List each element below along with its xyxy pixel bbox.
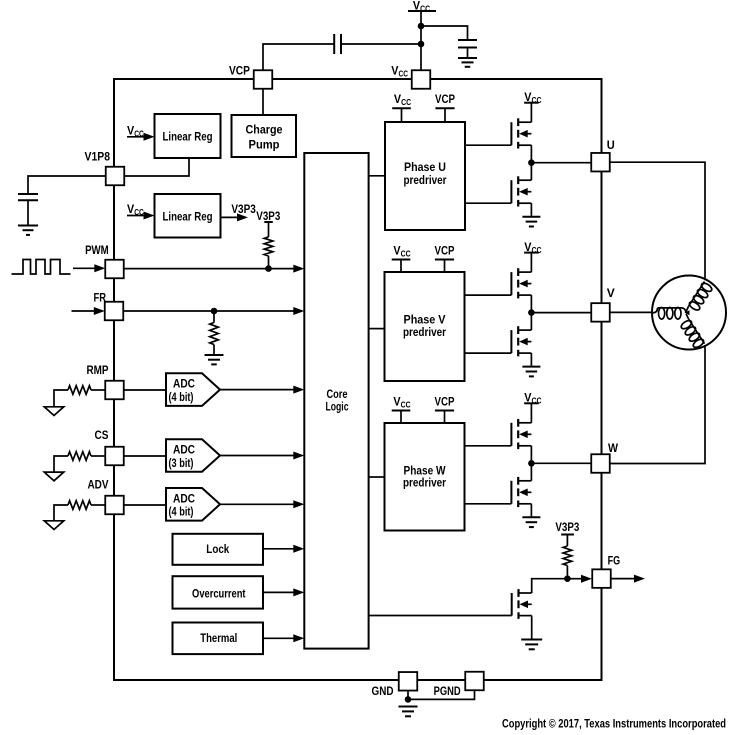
svg-text:Thermal: Thermal [200,631,237,645]
arrowhead ADC2 into core [293,452,304,460]
pin V1P8 [106,167,125,186]
wire ADC3 to core [220,503,295,505]
svg-text:CS: CS [95,428,109,442]
wire FG output arrow [611,578,634,580]
label FG [608,553,621,567]
svg-text:RMP: RMP [87,363,109,377]
wire V3P3 to resistor R3 [566,535,568,547]
label VCP pre U [435,92,455,106]
label VCC bridge V [524,240,541,255]
arrowhead into FG pin [581,575,592,583]
VCP tap Phase V predriver [435,260,454,273]
pin PGND [465,672,484,691]
VCC tap Phase W predriver [392,411,411,424]
wire R1 to PWM line [268,256,270,269]
arrowhead ADC3 into core [293,500,304,508]
junction dot top 2 [418,41,425,48]
wire ADV resistor lead [91,504,105,506]
svg-text:V3P3: V3P3 [256,209,280,223]
label VCP pre W [435,394,455,408]
svg-text:predriver: predriver [403,325,446,339]
motor coil W [680,314,705,349]
wire U pin to motor [610,162,705,280]
wire Overcurrent to core [263,591,295,593]
ground symbol bridge V [522,367,540,377]
svg-text:Logic: Logic [326,400,349,414]
pin RMP [105,381,124,400]
wire RMP resistor to ground arrow [54,390,68,407]
VCP tap Phase W predriver [435,411,454,424]
VCC tap Phase V predriver [392,260,411,273]
label Linear Reg 1 [163,129,213,143]
wire low-side source to ground V [530,353,532,367]
svg-text:Lock: Lock [206,542,229,556]
resistor R1 PWM pull-up [264,237,273,256]
pin U [591,153,610,172]
svg-text:Pump: Pump [249,138,280,152]
svg-text:(4 bit): (4 bit) [169,505,194,519]
label RMP [87,363,109,377]
label V3P3 FG [555,520,579,534]
label GND [372,684,394,698]
wire W pin to motor [610,345,705,464]
arrowhead into FR pin [94,307,105,315]
label PGND [434,684,461,698]
node V junction dot [528,309,535,316]
svg-text:(4 bit): (4 bit) [169,390,194,404]
wire CS resistor to ground arrow [54,456,68,472]
wire phase node to pin V [531,312,591,314]
block Core Logic [304,153,368,649]
wire V3P3 to resistor R1 [268,222,270,237]
transistor QWH high-side W [465,419,532,449]
ground symbol bridge W [522,517,540,527]
resistor R3 FG pull-up [563,546,572,566]
wire GND pin to ground [407,691,409,700]
ground symbol FG MOSFET [521,640,542,650]
wire low-side drain V [530,313,532,331]
svg-text:W: W [608,441,619,455]
arrowhead into Linear Reg 2 [144,212,155,220]
VCC supply rail top [408,10,436,12]
motor coil V [652,308,686,320]
wire C2 to VCP pin [263,44,334,70]
block Phase W predriver [385,423,465,531]
pin VCP [254,70,273,89]
motor winding center junction [685,310,690,315]
wire VCC to high-side drain V [530,253,532,273]
pin VCC [412,70,431,89]
resistor CS input [68,452,91,461]
transistor QVL low-side V [465,326,532,356]
wire FR input arrow [72,310,96,312]
pin FR [105,302,124,321]
wire PGND to GND junction [408,690,475,699]
block Linear Reg 2 [155,194,221,238]
ground symbol R2 [205,355,224,364]
label Thermal [200,631,237,645]
block Phase U predriver [385,122,465,230]
arrowhead Overcurrent into core [293,588,304,596]
block Lock [173,534,264,565]
label CS [95,428,109,442]
svg-text:(3 bit): (3 bit) [169,456,194,470]
wire ADC1 to core [220,389,295,391]
VCC tap Phase U predriver [392,108,411,122]
svg-text:V3P3: V3P3 [555,520,579,534]
V3P3 supply bar PWM pull-up [264,221,273,223]
label Overcurrent [192,586,246,600]
wire junction to charge pump capacitor [341,43,421,45]
label Lock [206,542,229,556]
wire Thermal to core [263,637,295,639]
wire phase node to pin W [531,462,591,464]
pin V [591,303,610,322]
wire core to FG MOSFET gate [369,615,512,617]
label VCC bridge W [524,391,541,406]
capacitor C1 VCC bypass [458,40,477,48]
label ADV [88,478,109,492]
junction dot top 1 [418,23,425,30]
arrowhead into Linear Reg 1 [144,133,155,141]
transistor QWL low-side W [465,477,532,507]
wire low-side source to ground U [530,203,532,217]
wire RMP resistor lead [91,389,105,391]
wire core to Phase W predriver [369,476,385,478]
wire low-side drain W [530,463,532,481]
block Charge Pump [232,115,297,157]
svg-text:V1P8: V1P8 [85,150,111,164]
ground arrow CS [44,472,64,481]
ADC1 4 bit [166,373,220,406]
svg-text:Copyright © 2017, Texas Instru: Copyright © 2017, Texas Instruments Inco… [502,717,726,731]
transistor QUL low-side U [465,176,531,206]
resistor RMP input [68,386,91,395]
junction dot GND [405,696,412,703]
copyright notice [502,717,726,731]
arrowhead Lock into core [293,545,304,553]
ground arrow RMP [44,407,64,416]
svg-text:VCP: VCP [435,92,455,106]
wire VCP pin to Charge Pump [262,89,264,115]
wire FR to core [123,310,295,312]
svg-text:U: U [607,138,615,152]
svg-text:FG: FG [608,553,621,567]
wire R2 to ground [213,345,215,356]
ground symbol bridge U [522,217,540,227]
label Phase V predriver [403,313,446,340]
ground symbol C1 [458,58,477,67]
ADC2 3 bit [166,439,220,472]
chip boundary box [114,79,602,680]
PWM square wave symbol [12,260,71,275]
svg-text:ADC: ADC [173,491,195,505]
arrowhead ADC1 into core [293,386,304,394]
wire V1P8 to external capacitor [28,176,106,194]
label V3P3 regulator output [231,202,256,216]
wire VCC into Linear Reg 1 [127,136,145,138]
block Linear Reg 1 [155,114,221,158]
wire R3 to FG node [566,566,568,579]
wire high-side source to phase node V [530,295,532,313]
pin GND [399,672,418,691]
transistor QVH high-side V [465,268,532,298]
arrowhead PWM into core [293,265,304,273]
svg-text:predriver: predriver [404,173,447,187]
wire CS to ADC2 [124,455,166,457]
wire Lock to core [263,548,295,550]
label Linear Reg 2 [163,209,213,223]
label V1P8 [85,150,111,164]
label VCC Linear Reg 2 [127,202,144,217]
svg-text:Overcurrent: Overcurrent [192,586,246,600]
svg-text:Linear Reg: Linear Reg [163,209,213,223]
label VCC pre U [394,92,411,107]
svg-text:Linear Reg: Linear Reg [163,129,213,143]
label FR [94,291,107,305]
wire ADV to ADC3 [124,504,166,506]
svg-text:PGND: PGND [434,684,461,698]
label Core Logic [326,387,349,414]
label VCC top [413,0,430,13]
junction dot PWM V3P3 [265,265,272,272]
wire C1 to ground [467,48,469,59]
arrowhead into PWM pin [94,264,105,272]
resistor ADV input [68,501,91,510]
wire ADV resistor to ground arrow [54,505,68,521]
transistor QUH high-side U [465,118,531,148]
wire ADC2 to core [220,455,295,457]
label VCC Linear Reg 1 [127,123,144,138]
capacitor C3 V1P8 bypass [18,194,38,200]
label VCC pin [391,64,408,79]
svg-text:GND: GND [372,684,394,698]
VCP tap Phase U predriver [435,108,454,122]
label VCP [229,64,250,78]
ground symbol C3 [18,226,38,235]
wire FG drain up [532,579,568,593]
label VCC pre V [393,243,410,258]
label Phase U predriver [404,160,447,187]
label Phase W predriver [403,464,446,490]
arrowhead Thermal into core [293,634,304,642]
label VCP pre V [435,243,455,257]
wire RMP to ADC1 [124,389,166,391]
wire VCC to high-side drain W [530,403,532,423]
capacitor C2 charge pump [334,34,341,54]
wire FR junction to resistor R2 [213,311,215,323]
resistor R2 FR pulldown [210,323,219,345]
label V [607,286,615,300]
wire low-side drain U [530,163,532,181]
wire FG source to ground [531,616,533,640]
V3P3 supply bar FG pull-up [561,534,574,536]
wire PWM to core [124,268,295,270]
block Phase V predriver [385,272,465,381]
block Overcurrent [173,576,264,608]
label V3P3 supply [256,209,280,223]
wire CS resistor lead [91,455,105,457]
pin PWM [105,260,124,279]
svg-text:VCP: VCP [435,243,455,257]
wire high-side source to phase node U [530,145,532,163]
wire VCC rail down to VCC pin [420,11,422,70]
svg-text:V3P3: V3P3 [231,202,256,216]
VCC rail half-bridge V [524,252,539,254]
svg-text:predriver: predriver [403,476,446,490]
svg-text:ADC: ADC [173,443,195,457]
block Thermal [173,623,264,655]
label PWM [85,243,109,257]
wire C3 to ground [27,200,29,225]
motor coil U [686,282,713,312]
label Charge Pump [246,123,283,152]
wire phase node to pin U [531,162,591,164]
label U [607,138,615,152]
svg-text:VCP: VCP [229,64,250,78]
transistor Q7 FG open-drain [512,589,532,619]
pin CS [105,447,124,466]
pin W [591,454,610,473]
motor winding circle [652,276,726,350]
label VCC pre W [393,394,410,409]
ground arrow ADV [44,521,64,530]
label W [608,441,619,455]
wire junction to bypass capacitor [421,26,468,40]
wire core to Phase V predriver [369,328,385,330]
junction dot FR [211,308,218,315]
svg-text:FR: FR [94,291,107,305]
wire VCC into Linear Reg 2 [127,215,145,217]
wire PWM input arrow [73,267,95,269]
ground symbol GND [399,707,418,717]
wire low-side source to ground W [530,504,532,518]
svg-text:ADC: ADC [173,377,195,391]
wire Linear Reg 1 to V1P8 pin [124,158,189,176]
VCC rail half-bridge W [524,402,539,404]
arrowhead V3P3 output [237,213,248,221]
svg-text:Phase U: Phase U [404,160,446,174]
wire core to Phase U predriver [369,175,385,177]
arrowhead FG output [634,575,645,583]
junction dot FG [564,575,571,582]
svg-text:V: V [607,286,615,300]
ADC3 4 bit [166,488,220,521]
arrowhead FR into core [293,307,304,315]
wire high-side source to phase node W [530,446,532,464]
wire Linear Reg 2 output [221,216,239,218]
svg-text:ADV: ADV [88,478,109,492]
wire V pin to motor [610,311,652,313]
svg-text:PWM: PWM [85,243,109,257]
wire FG node to pin [567,578,582,580]
label VCC bridge U [524,90,541,105]
VCC rail half-bridge U [524,102,539,104]
pin ADV [105,496,124,515]
node W junction dot [528,460,535,467]
wire VCC to high-side drain U [530,103,532,123]
node U junction dot [528,159,535,166]
pin FG [592,569,611,588]
svg-text:VCP: VCP [435,394,455,408]
svg-text:Charge: Charge [246,123,283,137]
